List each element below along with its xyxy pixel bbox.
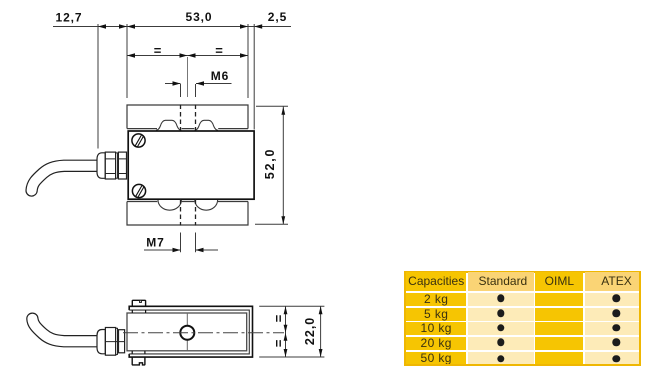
gland nut front [105, 152, 115, 179]
top tab [132, 300, 145, 307]
svg-text:52,0: 52,0 [263, 148, 277, 180]
gland thin ring front [116, 153, 118, 178]
M6 hole dashed lines [181, 105, 196, 131]
svg-text:53,0: 53,0 [186, 10, 213, 24]
arrowheads top dimension [98, 24, 262, 28]
svg-text:22,0: 22,0 [303, 317, 317, 345]
side inner frame [129, 310, 249, 354]
capacities table [404, 271, 641, 366]
gland locknut front [118, 152, 126, 179]
gland thin ring side [116, 328, 118, 354]
extension line x=98 [97, 24, 99, 149]
cable front view [32, 166, 97, 191]
cover plate front [128, 131, 254, 199]
svg-text:M6: M6 [211, 69, 229, 83]
dimension eq-eq side [259, 306, 324, 357]
dimension equal-equal line [127, 55, 248, 57]
gland dome side [97, 330, 105, 354]
gland locknut side [119, 330, 125, 353]
side body rect [127, 313, 247, 351]
dimension 22,0 [320, 306, 322, 357]
top S-bumps [156, 120, 218, 130]
dimension 52,0 [255, 106, 288, 224]
top block [127, 105, 248, 129]
extension line x=248 [247, 24, 249, 98]
center hole [180, 326, 194, 340]
screw top [132, 134, 145, 147]
screw bottom [132, 184, 145, 197]
extension line x=127 [126, 24, 128, 98]
svg-text:M7: M7 [146, 235, 164, 249]
centerline above body [187, 57, 189, 97]
M7 hole dashed lines [181, 200, 196, 226]
svg-text:=: = [154, 43, 162, 58]
svg-text:=: = [271, 314, 286, 322]
dimension M6 [165, 83, 232, 85]
dimension 12,7 53,0 2,5 top line [53, 26, 291, 28]
cable gland front: dome [97, 153, 105, 179]
svg-text:=: = [271, 339, 286, 347]
svg-text:12,7: 12,7 [56, 10, 83, 24]
gland nut side [105, 328, 115, 356]
vertical line through hole [186, 313, 188, 351]
side outer frame [129, 306, 252, 357]
dimension M7 [181, 233, 196, 253]
dash-dot centerline [123, 332, 284, 334]
cable side view [32, 319, 97, 342]
extension line x=254.5 [253, 24, 255, 130]
bottom tab [132, 357, 145, 365]
bottom block [127, 202, 248, 226]
bottom S-arcs [158, 200, 218, 210]
svg-text:2,5: 2,5 [268, 10, 287, 24]
svg-text:=: = [215, 43, 223, 58]
